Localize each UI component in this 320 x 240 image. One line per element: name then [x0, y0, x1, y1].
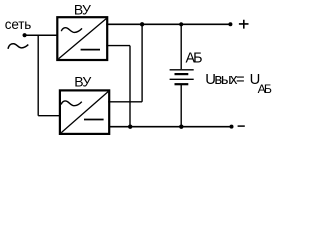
battery plate (short thick, cell 2): [175, 83, 189, 85]
AC tilde symbol (mains): [8, 44, 28, 49]
minus sign: [238, 125, 245, 127]
wire: top rail (U1 + output to positive terminal): [106, 23, 230, 25]
battery plate (long thin, cell 2): [170, 78, 194, 80]
U1 AC sine symbol: [61, 28, 82, 33]
svg-text:АБ: АБ: [186, 50, 203, 66]
wire: mains node to rectifier U1 input: [25, 34, 58, 36]
node: top rail / U2 output junction: [140, 22, 144, 26]
svg-text:ВУ: ВУ: [74, 1, 91, 17]
battery bottom lead: [180, 85, 182, 127]
svg-text:Uвых=: Uвых=: [205, 72, 244, 88]
battery top lead: [180, 24, 182, 69]
U2 DC dash symbol: [84, 119, 104, 121]
plus sign: [239, 20, 249, 29]
input terminal node (сеть): [23, 33, 27, 37]
U1 diagonal: [59, 19, 107, 59]
node: top rail / battery junction: [179, 22, 183, 26]
wire: U2 plus output vertical: [141, 24, 143, 102]
svg-text:АБ: АБ: [258, 82, 272, 96]
negative terminal node: [230, 125, 234, 129]
wire: U1 minus output horizontal: [106, 45, 130, 47]
node: bottom rail / battery junction: [179, 125, 183, 129]
wire: U2 plus output horizontal: [108, 101, 142, 103]
battery plate (short thick, cell 1): [175, 73, 189, 75]
svg-text:ВУ: ВУ: [74, 74, 91, 90]
U2 diagonal: [61, 92, 108, 133]
rectifier U1 box (ВУ): [57, 17, 107, 60]
wire: branch to rectifier U2 input: [38, 115, 60, 117]
svg-text:сеть: сеть: [5, 17, 32, 32]
node: bottom rail / U1 minus junction: [128, 125, 132, 129]
U2 AC sine symbol: [61, 101, 82, 106]
wire: U1 minus output vertical: [129, 46, 131, 127]
wire: vertical branch to U2: [37, 35, 39, 116]
U1 DC dash symbol: [81, 49, 100, 51]
battery plate (long thin, cell 1): [170, 69, 194, 71]
rectifier U2 box (ВУ): [60, 90, 109, 133]
positive terminal node: [228, 22, 232, 26]
wire: bottom rail (U2 - output to negative terminal): [109, 126, 231, 128]
